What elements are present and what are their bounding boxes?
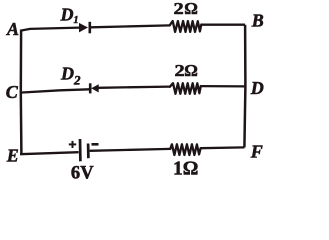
wire: bottom resistor to F	[200, 146, 244, 149]
wire: top resistor to B	[201, 24, 245, 26]
svg-text:C: C	[6, 82, 19, 102]
svg-text:D: D	[250, 78, 264, 98]
svg-text:A: A	[6, 19, 19, 39]
wire: middle C to D2	[20, 89, 90, 92]
diode D2	[90, 83, 99, 93]
wire: D1 to top resistor	[91, 25, 170, 27]
svg-text:B: B	[251, 10, 264, 30]
wire: bottom E to battery	[20, 152, 79, 154]
svg-text:6V: 6V	[71, 164, 94, 184]
resistor R-bot 1ohm	[170, 144, 200, 155]
svg-text:1Ω: 1Ω	[173, 158, 198, 179]
wire: top A to D1	[20, 28, 80, 31]
battery plus sign	[69, 141, 76, 148]
resistor R-mid 2ohm	[170, 83, 201, 94]
battery B1 plate long +	[79, 139, 82, 161]
resistor R-top 2ohm	[170, 21, 202, 32]
battery minus sign	[92, 143, 99, 146]
svg-text:D2: D2	[60, 64, 81, 88]
wire: D2 to middle resistor	[99, 87, 170, 88]
wire: middle resistor to D	[201, 85, 245, 88]
wire: right vertical B-D-F	[244, 25, 245, 148]
svg-text:2Ω: 2Ω	[175, 61, 198, 80]
wire: battery to bottom resistor	[90, 149, 171, 151]
svg-text:E: E	[6, 145, 19, 165]
svg-text:2Ω: 2Ω	[174, 0, 198, 18]
svg-text:D1: D1	[60, 5, 79, 26]
svg-text:F: F	[250, 141, 263, 161]
battery B1 plate short -	[87, 144, 90, 159]
wire: left vertical A-C-E	[20, 31, 23, 155]
diode D1	[79, 22, 90, 34]
